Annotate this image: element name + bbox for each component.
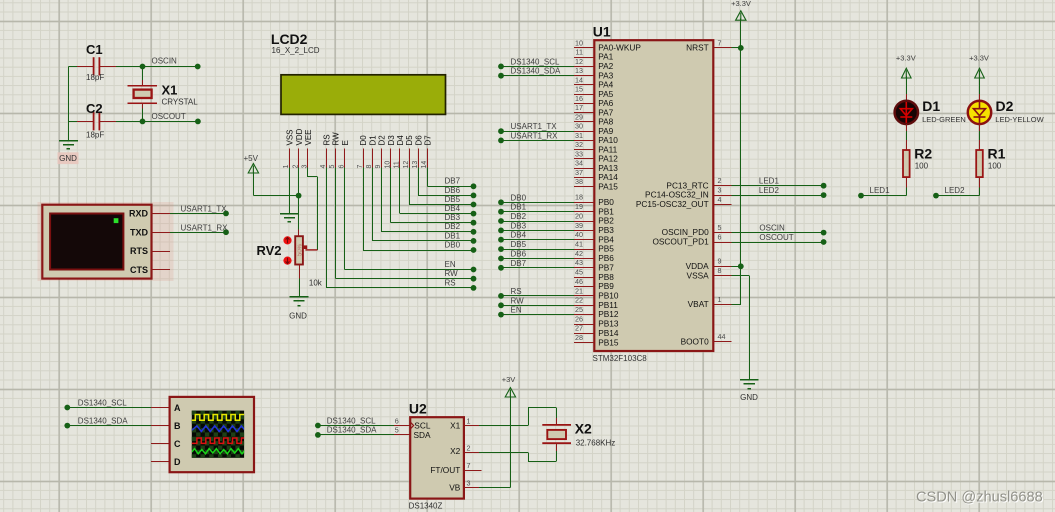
svg-text:44: 44 [718, 332, 726, 341]
LCD pin 13 D6 [412, 135, 423, 169]
U1 pin 9 VDDA [686, 257, 732, 271]
U1 pin 38 PA15 [574, 177, 618, 191]
node OSCOUT junction [140, 119, 146, 125]
U1 pin 6 OSCOUT_PD1 [652, 232, 731, 246]
svg-text:U1: U1 [593, 24, 611, 40]
wire USART1_RX net (U1 side) [501, 140, 574, 142]
svg-text:DB6: DB6 [445, 186, 461, 195]
U1 pin 32 PA11 [574, 140, 617, 154]
U1 pin 46 PB9 [574, 277, 614, 291]
svg-text:SDA: SDA [414, 430, 432, 440]
svg-text:X1: X1 [162, 83, 178, 98]
wire +3.3V to D2 anode [979, 76, 981, 94]
wire +5V to VDD [253, 172, 255, 196]
svg-text:LCD2: LCD2 [271, 31, 308, 47]
LCD display LCD2 body [281, 75, 446, 115]
pin A stub (scope) [151, 407, 169, 409]
U1 pin 39 PB3 [574, 221, 614, 235]
svg-text:+3.3V: +3.3V [731, 0, 751, 8]
svg-text:B: B [174, 421, 181, 431]
svg-text:DB2: DB2 [511, 212, 527, 221]
svg-text:VSS: VSS [286, 129, 295, 145]
wire DS1340_SDA net (U2 side) [318, 434, 394, 436]
svg-text:RXD: RXD [129, 209, 149, 219]
svg-text:STM32F103C8: STM32F103C8 [593, 354, 648, 363]
svg-text:5: 5 [718, 223, 722, 232]
svg-text:13: 13 [575, 66, 583, 75]
virtual terminal (RXD/TXD/RTS/CTS) [42, 205, 151, 279]
svg-text:VDDA: VDDA [686, 261, 710, 271]
U2 pin 5 SDA stub [394, 434, 410, 436]
svg-text:DB3: DB3 [445, 213, 461, 222]
wire OSCOUT net (U1 right) [732, 242, 824, 244]
U1 pin 14 PA4 [574, 75, 613, 89]
svg-text:2: 2 [467, 443, 471, 452]
svg-text:LED-YELLOW: LED-YELLOW [995, 115, 1044, 124]
svg-text:30: 30 [575, 122, 583, 131]
wire VSS to ground [289, 167, 291, 213]
node DS1340_SDA terminal (U2 side) [315, 432, 321, 438]
wire DB3 net (LCD D3) [390, 167, 392, 222]
RTC U2 DS1340Z body [410, 417, 464, 498]
wire DB5 net (LCD D5) [409, 167, 411, 204]
svg-text:100: 100 [915, 162, 929, 171]
ground symbol (RV2) [290, 297, 309, 306]
svg-text:LED2: LED2 [945, 186, 966, 195]
svg-text:CSDN @zhusl6688: CSDN @zhusl6688 [916, 490, 1043, 506]
wire USART1_TX net (U1 side) [501, 131, 574, 133]
svg-text:C2: C2 [86, 101, 103, 116]
svg-text:DS1340_SDA: DS1340_SDA [511, 67, 561, 76]
svg-text:LED-GREEN: LED-GREEN [922, 115, 966, 124]
U1 pin 7 NRST [686, 38, 731, 52]
wire RS net (LCD RS) [326, 167, 328, 288]
node EN terminal (U1 side) [498, 312, 504, 318]
node DB1 terminal (LCD side) [471, 238, 477, 244]
U1 pin 22 PB11 [574, 296, 618, 310]
svg-text:RS: RS [511, 287, 522, 296]
wire left rail to GND [68, 67, 70, 141]
svg-text:10: 10 [575, 38, 583, 47]
svg-text:32: 32 [575, 140, 583, 149]
wire R1 bottom to LED2 net [979, 177, 981, 187]
node DB5 terminal (U1 side) [498, 246, 504, 252]
svg-text:16: 16 [575, 94, 583, 103]
node USART1_RX terminal (U1 side) [498, 138, 504, 144]
wire DB7 net (LCD D7) [427, 167, 429, 186]
wire VSSA to ground [732, 275, 750, 277]
wire OSCIN net (U1 right) [732, 232, 824, 234]
svg-text:DB5: DB5 [511, 240, 527, 249]
svg-text:DS1340_SDA: DS1340_SDA [327, 426, 377, 435]
svg-text:VDD: VDD [295, 128, 304, 145]
svg-text:22: 22 [575, 296, 583, 305]
svg-text:38: 38 [575, 177, 583, 186]
svg-text:D7: D7 [424, 135, 433, 146]
svg-text:DB1: DB1 [445, 231, 461, 240]
svg-text:33: 33 [575, 149, 583, 158]
U1 pin 33 PA12 [574, 149, 618, 163]
svg-text:USART1_RX: USART1_RX [181, 223, 229, 232]
node LED1 terminal (U1 side) [821, 183, 827, 189]
svg-text:EN: EN [445, 260, 456, 269]
pin RXD stub [151, 213, 170, 215]
svg-text:14: 14 [575, 75, 583, 84]
pin B stub (scope) [151, 425, 169, 427]
wire EN net (U1 side) [501, 314, 574, 316]
wire LED2 net (U1 side) [732, 195, 824, 197]
svg-text:5: 5 [395, 426, 399, 435]
wire LED1 net (U1 side) [732, 185, 824, 187]
wire DB1 net (U1 side) [501, 211, 574, 213]
node NRST junction [738, 45, 744, 51]
U1 pin 3 PC14-OSC32_IN [645, 186, 732, 200]
svg-text:E: E [341, 140, 350, 145]
svg-text:RW: RW [445, 269, 459, 278]
node OSCIN terminal [195, 64, 201, 70]
svg-text:GND: GND [740, 393, 758, 402]
node OSCIN terminal (U1 right) [821, 230, 827, 236]
pin RTS stub [151, 251, 170, 253]
svg-text:DB1: DB1 [511, 203, 527, 212]
wire DB2 net (LCD D2) [381, 167, 383, 231]
svg-text:GND: GND [59, 154, 77, 163]
LCD pin 7 D0 [357, 135, 368, 169]
wire +3V to U2 VB [510, 395, 512, 488]
LCD pin 14 D7 [421, 135, 432, 169]
wire crystal bottom lead [142, 103, 144, 109]
node DB7 terminal (LCD side) [471, 183, 477, 189]
svg-text:+3V: +3V [502, 375, 516, 384]
svg-text:18: 18 [575, 193, 583, 202]
svg-text:FT/OUT: FT/OUT [430, 465, 460, 475]
svg-text:DB4: DB4 [445, 204, 461, 213]
svg-text:1: 1 [467, 416, 471, 425]
pin D stub (scope) [151, 461, 169, 463]
svg-text:D0: D0 [359, 135, 368, 146]
svg-text:A: A [174, 403, 181, 413]
wire VEE to RV2 wiper [307, 167, 309, 177]
svg-text:X1: X1 [450, 420, 461, 430]
wire DS1340_SCL net (scope side) [67, 407, 151, 409]
pin C stub (scope) [151, 443, 169, 445]
svg-text:R2: R2 [914, 146, 932, 162]
svg-text:10k: 10k [309, 279, 323, 288]
svg-text:41: 41 [575, 240, 583, 249]
svg-text:TXD: TXD [130, 227, 149, 237]
wire USART1_RX net [170, 232, 226, 234]
node DS1340_SCL terminal (U2 side) [315, 423, 321, 429]
LED D1 [895, 101, 918, 124]
svg-text:28: 28 [575, 333, 583, 342]
svg-text:29: 29 [575, 112, 583, 121]
wire DS1340_SDA net (U1 side) [501, 75, 574, 77]
svg-text:NRST: NRST [686, 43, 709, 53]
svg-text:C1: C1 [86, 42, 103, 57]
svg-text:VBAT: VBAT [688, 299, 709, 309]
svg-text:DS1340Z: DS1340Z [409, 502, 443, 511]
wire VDD to +5V junction and RV2 top [298, 167, 300, 229]
U1 pin 29 PA8 [574, 112, 613, 126]
node DB5 terminal (LCD side) [471, 202, 477, 208]
svg-text:D2: D2 [378, 135, 387, 146]
svg-text:12: 12 [403, 161, 410, 169]
node DB6 terminal (LCD side) [471, 193, 477, 199]
svg-text:7: 7 [357, 165, 364, 169]
wire DB2 net (U1 side) [501, 221, 574, 223]
svg-text:12: 12 [575, 57, 583, 66]
node OSCOUT terminal [195, 119, 201, 125]
RV2 adjust button up [283, 236, 291, 244]
svg-text:DB7: DB7 [445, 177, 461, 186]
svg-text:32.768KHz: 32.768KHz [576, 438, 616, 447]
svg-text:4: 4 [718, 195, 722, 204]
U1 pin 1 VBAT [688, 295, 732, 309]
wire DB0 net (U1 side) [501, 202, 574, 204]
node DB3 terminal (LCD side) [471, 220, 477, 226]
svg-text:VB: VB [449, 483, 461, 493]
wire DB6 net (U1 side) [501, 258, 574, 260]
svg-text:RV2: RV2 [256, 243, 281, 258]
svg-text:RS: RS [445, 278, 456, 287]
LCD pin 11 D4 [394, 135, 405, 169]
wire DB3 net (U1 side) [501, 230, 574, 232]
svg-text:D: D [174, 457, 181, 467]
resistor R2 [903, 150, 910, 177]
U1 pin 17 PA7 [574, 103, 613, 117]
svg-text:40: 40 [575, 230, 583, 239]
svg-text:USART1_RX: USART1_RX [511, 131, 559, 140]
crystal X1 [128, 86, 157, 104]
svg-text:D2: D2 [996, 98, 1014, 114]
svg-text:C: C [174, 439, 181, 449]
wire DS1340_SDA net (scope side) [67, 425, 151, 427]
wire RS net (U1 side) [501, 295, 574, 297]
label GND (crystal section, highlighted) [58, 152, 79, 164]
svg-text:16_X_2_LCD: 16_X_2_LCD [272, 46, 320, 55]
svg-text:D1: D1 [922, 98, 940, 114]
U2 pin 1 X1 stub [464, 425, 479, 427]
wire crystal X2 bottom to U2 X2 [556, 443, 558, 451]
U2 pin 7 FT/OUT stub [464, 470, 482, 472]
wire DB7 net (U1 side) [501, 267, 574, 269]
svg-text:37: 37 [575, 168, 583, 177]
wire DB0 net (LCD D0) [363, 167, 365, 250]
node VDD/+5V junction [296, 193, 302, 199]
U1 pin 28 PB15 [574, 333, 619, 347]
selection highlight around terminal [38, 202, 174, 281]
RV2 adjust button down [283, 257, 291, 265]
wire D2 cathode to R1 [979, 124, 981, 131]
svg-text:PC15-OSC32_OUT: PC15-OSC32_OUT [636, 199, 709, 209]
svg-text:D5: D5 [405, 135, 414, 146]
svg-text:RTS: RTS [130, 246, 148, 256]
svg-text:27: 27 [575, 324, 583, 333]
U1 pin 18 PB0 [574, 193, 614, 207]
svg-text:VEE: VEE [304, 129, 313, 145]
svg-text:+3.3V: +3.3V [969, 53, 989, 62]
U2 pin 3 VB stub [464, 487, 479, 489]
U1 pin 27 PB14 [574, 324, 619, 338]
node DS1340_SCL terminal (U1 side) [498, 64, 504, 70]
svg-text:3: 3 [467, 479, 471, 488]
svg-text:2: 2 [718, 176, 722, 185]
svg-text:8: 8 [718, 266, 722, 275]
svg-text:21: 21 [575, 286, 583, 295]
LCD pin 12 D5 [403, 135, 414, 169]
wire DB5 net (U1 side) [501, 249, 574, 251]
svg-text:20: 20 [575, 211, 583, 220]
U1 pin 11 PA1 [574, 48, 613, 62]
node DS1340_SDA terminal (U1 side) [498, 73, 504, 79]
svg-text:PA15: PA15 [598, 181, 618, 191]
svg-text:DS1340_SCL: DS1340_SCL [327, 416, 376, 425]
ground symbol (LCD VSS) [280, 214, 299, 222]
svg-text:31: 31 [575, 131, 583, 140]
U1 pin 15 PA5 [574, 85, 613, 99]
svg-text:46: 46 [575, 277, 583, 286]
svg-text:OSCIN: OSCIN [152, 57, 178, 66]
U2 clock input chevron [410, 422, 414, 430]
svg-text:DB4: DB4 [511, 231, 527, 240]
svg-text:GND: GND [289, 312, 307, 321]
svg-text:DB6: DB6 [511, 250, 527, 259]
node USART1_TX terminal [223, 211, 229, 217]
U1 pin 44 BOOT0 [681, 332, 732, 346]
svg-text:DB2: DB2 [445, 222, 461, 231]
microcontroller U1 STM32F103C8 [594, 40, 713, 351]
wire DS1340_SCL net (U2 side) [318, 425, 394, 427]
oscilloscope body [170, 397, 254, 472]
svg-text:USART1_TX: USART1_TX [511, 122, 558, 131]
svg-text:OSCOUT_PD1: OSCOUT_PD1 [652, 237, 709, 247]
LCD pin 9 D2 [375, 135, 386, 169]
U1 pin 12 PA2 [574, 57, 613, 71]
wire DB4 net (LCD D4) [399, 167, 401, 213]
svg-text:OSCOUT: OSCOUT [152, 112, 186, 121]
node DB1 terminal (U1 side) [498, 209, 504, 215]
svg-text:18pF: 18pF [86, 73, 104, 82]
pin CTS stub [151, 269, 170, 271]
svg-text:39: 39 [575, 221, 583, 230]
U1 pin 25 PB12 [574, 305, 619, 319]
LCD pin 8 D1 [366, 135, 377, 169]
svg-text:D6: D6 [414, 135, 423, 146]
wire RV2 bottom to ground [299, 265, 301, 279]
svg-text:RW: RW [511, 296, 525, 305]
node DB7 terminal (U1 side) [498, 265, 504, 271]
svg-text:6: 6 [395, 416, 399, 425]
svg-text:43: 43 [575, 258, 583, 267]
svg-text:15: 15 [575, 85, 583, 94]
LCD pin 3 VEE [302, 129, 313, 168]
U1 pin 4 PC15-OSC32_OUT [636, 195, 732, 209]
node DS1340_SCL terminal (scope side) [64, 405, 70, 411]
node DB6 terminal (U1 side) [498, 256, 504, 262]
svg-text:7: 7 [718, 38, 722, 47]
node RS terminal (LCD side) [471, 285, 477, 291]
U1 pin 16 PA6 [574, 94, 613, 108]
U1 pin 43 PB7 [574, 258, 614, 272]
svg-text:CRYSTAL: CRYSTAL [162, 98, 199, 107]
capacitor C2 [68, 112, 142, 130]
node LED2 terminal (U1 side) [821, 192, 827, 198]
svg-text:25: 25 [575, 305, 583, 314]
node LED2 terminal (LED column) [933, 193, 939, 199]
svg-text:LED1: LED1 [870, 186, 891, 195]
wire +3.3V to D1 anode [906, 76, 908, 94]
wire DB4 net (U1 side) [501, 239, 574, 241]
U1 pin 8 VSSA [687, 266, 732, 280]
U1 pin 37 PA14 [574, 168, 618, 182]
wire DB6 net (LCD D6) [418, 167, 420, 195]
svg-text:LED1: LED1 [759, 177, 780, 186]
wire R2 bottom to LED1 net [906, 177, 908, 187]
wire +3.3V rail to NRST/VDDA/VBAT [740, 19, 742, 305]
U2 pin 2 X2 stub [464, 452, 479, 454]
LCD pin 4 RS [320, 134, 331, 168]
svg-text:DS1340_SDA: DS1340_SDA [78, 416, 128, 425]
LCD pin 6 E [338, 140, 349, 168]
ground symbol (VSSA) [740, 380, 759, 389]
svg-text:7: 7 [467, 461, 471, 470]
svg-text:+3.3V: +3.3V [896, 53, 916, 62]
svg-text:11: 11 [576, 48, 583, 57]
svg-text:9: 9 [718, 257, 722, 266]
U1 pin 42 PB6 [574, 249, 614, 263]
U1 pin 26 PB13 [574, 314, 619, 328]
node RS terminal (U1 side) [498, 293, 504, 299]
node RW terminal (LCD side) [471, 276, 477, 282]
node DB2 terminal (LCD side) [471, 229, 477, 235]
U1 pin 10 PA0-WKUP [574, 38, 641, 52]
U1 pin 21 PB10 [574, 286, 619, 300]
svg-text:RS: RS [322, 134, 331, 145]
wire EN net (LCD E) [344, 167, 346, 269]
svg-text:EN: EN [511, 306, 522, 315]
node DS1340_SDA terminal (scope side) [64, 423, 70, 429]
U1 pin 41 PB5 [574, 240, 614, 254]
node DB3 terminal (U1 side) [498, 228, 504, 234]
U1 pin 31 PA10 [574, 131, 618, 145]
wire OSCIN net [143, 66, 198, 68]
svg-text:6: 6 [718, 232, 722, 241]
U1 pin 13 PA3 [574, 66, 613, 80]
svg-text:X2: X2 [575, 421, 592, 437]
svg-text:19: 19 [575, 202, 583, 211]
wire crystal top lead [142, 67, 144, 81]
svg-text:OSCOUT: OSCOUT [759, 233, 793, 242]
svg-text:DS1340_SCL: DS1340_SCL [511, 57, 560, 66]
LCD pin 5 RW [329, 132, 340, 169]
wire RW net (LCD RW) [335, 167, 337, 278]
resistor R1 [976, 150, 983, 177]
U1 pin 2 PC13_RTC [666, 176, 731, 190]
node DB0 terminal (LCD side) [471, 247, 477, 253]
node RW terminal (U1 side) [498, 302, 504, 308]
svg-text:CTS: CTS [130, 265, 148, 275]
svg-text:D4: D4 [396, 135, 405, 146]
LCD pin 2 VDD [292, 128, 303, 168]
svg-text:34: 34 [575, 159, 583, 168]
LED D2 [968, 101, 991, 124]
wire U2 X1 to crystal X2 top [479, 425, 528, 427]
U1 pin 5 OSCIN_PD0 [662, 223, 732, 237]
svg-text:42: 42 [575, 249, 583, 258]
U1 pin 19 PB1 [574, 202, 614, 216]
pin TXD stub [151, 232, 170, 234]
potentiometer RV2 [295, 236, 317, 264]
